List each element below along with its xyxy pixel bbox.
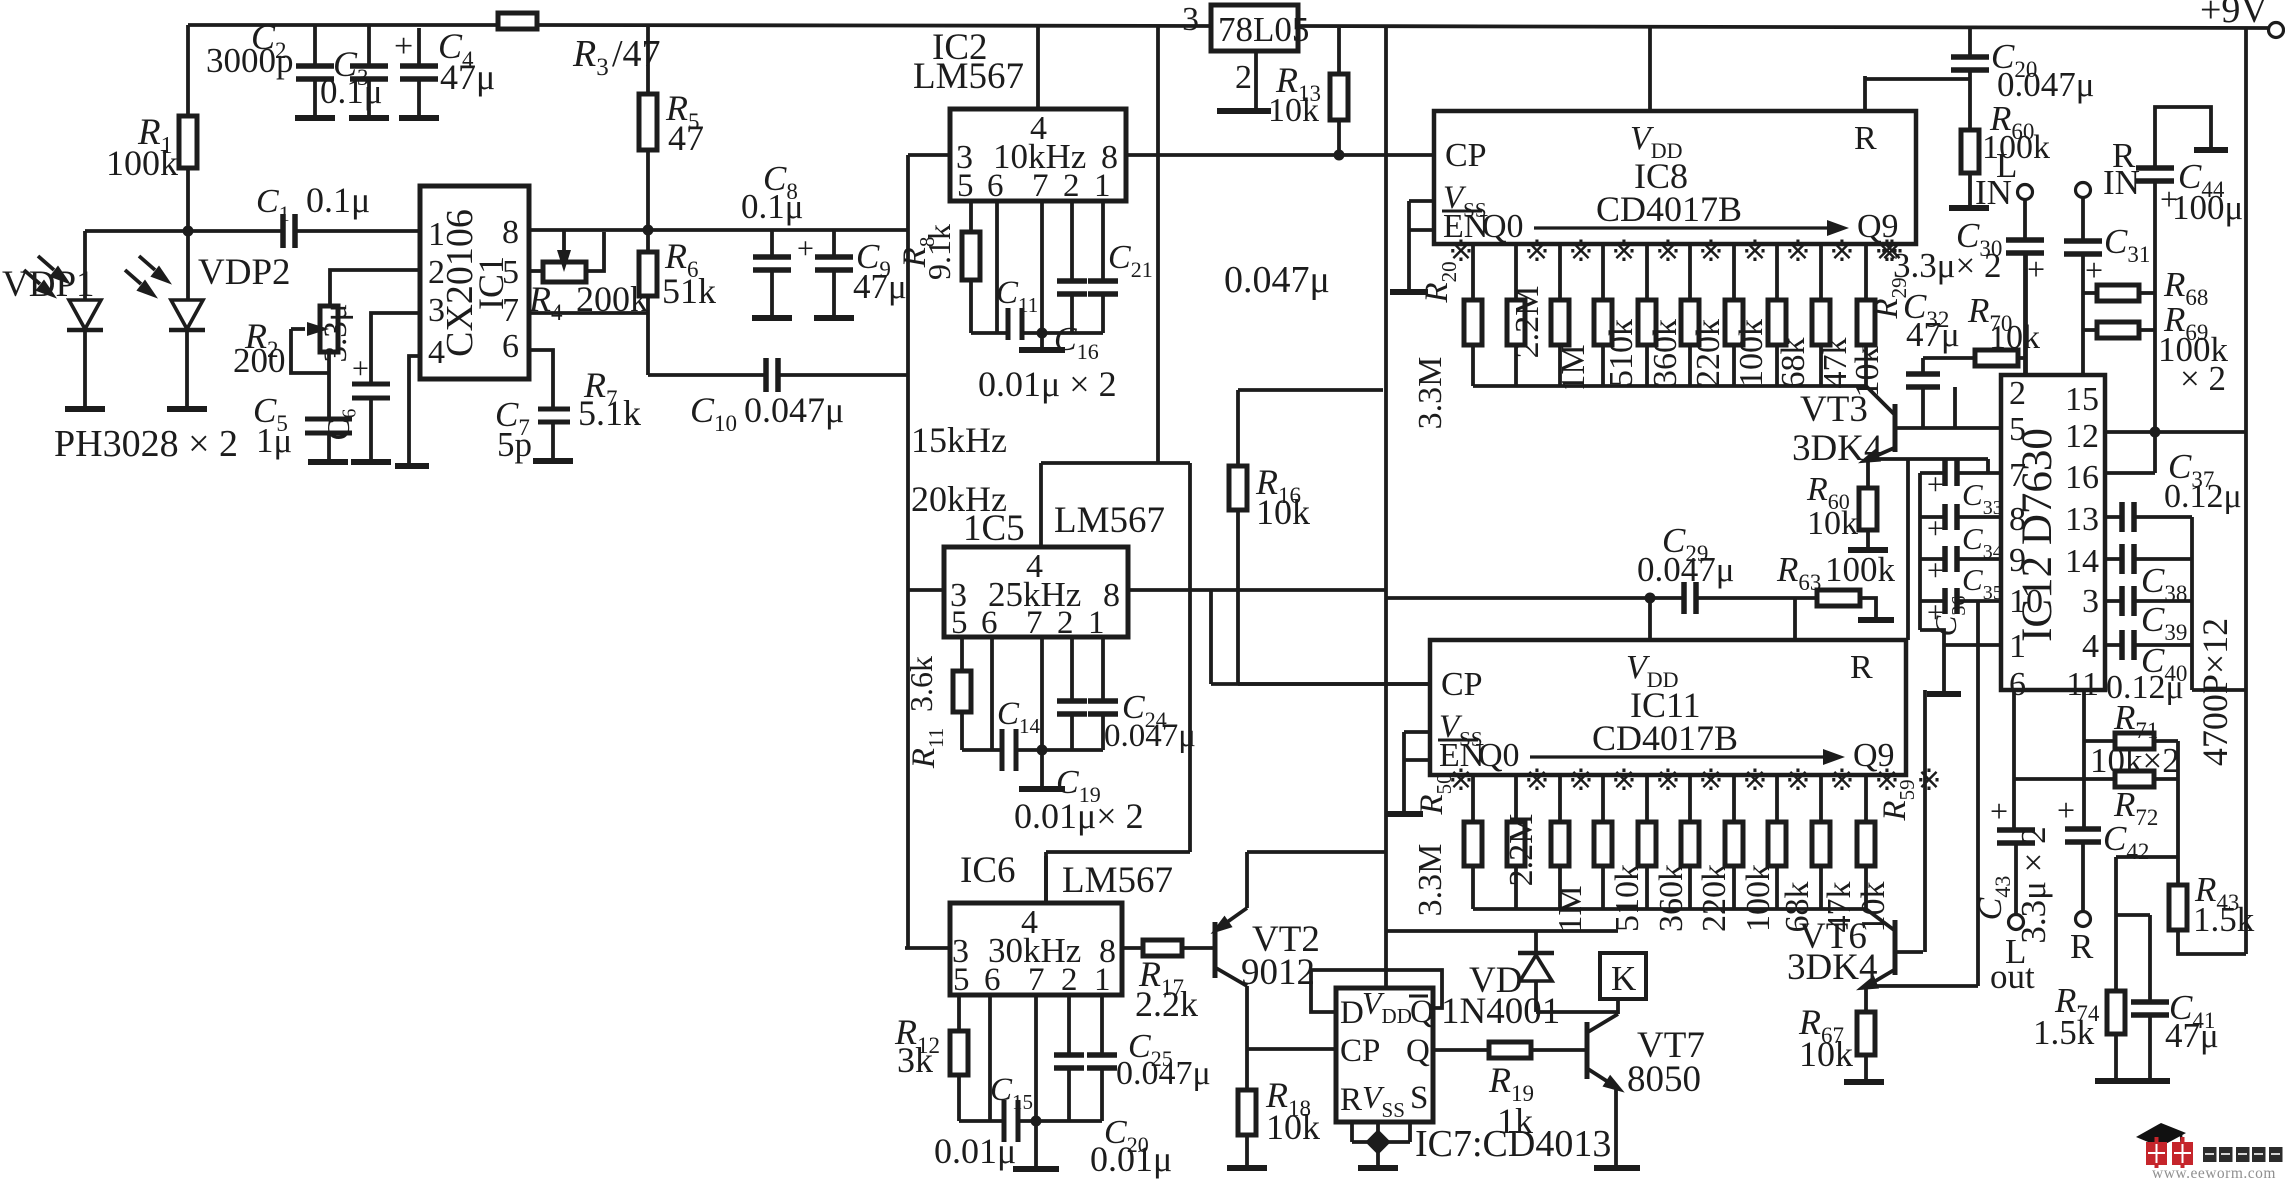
svg-text:※: ※ <box>1524 235 1549 268</box>
svg-text:360k: 360k <box>1653 864 1690 932</box>
svg-text:3.3M: 3.3M <box>1412 357 1449 430</box>
svg-text:51k: 51k <box>662 271 716 311</box>
svg-text:※: ※ <box>1611 764 1636 797</box>
ladder resistor 220k <box>1688 775 1692 822</box>
svg-text:10k×2: 10k×2 <box>2090 741 2180 780</box>
resistor R3 47 in rail <box>498 13 537 29</box>
svg-text:PH3028 × 2: PH3028 × 2 <box>54 423 238 465</box>
svg-text:10k: 10k <box>1266 1107 1320 1147</box>
svg-text:1N4001: 1N4001 <box>1441 991 1560 1032</box>
svg-text:+9V: +9V <box>2200 0 2268 31</box>
svg-text:9.1k: 9.1k <box>921 224 957 280</box>
transistor VT6 3DK4 <box>1866 909 1894 930</box>
resistor R18 10k <box>1238 1090 1256 1135</box>
wire IC6 pin4 riser <box>1044 856 1048 903</box>
transistor VT2 9012 <box>1213 922 1218 978</box>
svg-text:1.5k: 1.5k <box>2033 1013 2095 1052</box>
svg-text:※: ※ <box>1655 764 1680 797</box>
svg-text:10k: 10k <box>1256 492 1310 532</box>
svg-text:/47: /47 <box>612 33 661 75</box>
svg-text:78L05: 78L05 <box>1218 10 1309 49</box>
wire IC1 pin4 to ground <box>409 356 420 463</box>
svg-text:R: R <box>1340 1082 1362 1118</box>
IC7 bottom pins to ground <box>1350 1122 1354 1142</box>
ladder bottom bus <box>1473 384 1866 388</box>
resistor R16 10k <box>1236 390 1240 466</box>
svg-text:3DK4: 3DK4 <box>1787 947 1877 988</box>
capacitor C40 pin4 <box>2105 643 2122 647</box>
svg-text:47μ: 47μ <box>2165 1016 2219 1055</box>
capacitor C31 3.3u <box>2081 197 2085 241</box>
IC U12 D7630 box <box>2001 375 2105 690</box>
resistor R72 10k <box>2014 777 2115 781</box>
svg-text:1M: 1M <box>1555 344 1592 391</box>
wire IC1 pin6 to C7 <box>529 350 553 407</box>
svg-text:3k: 3k <box>897 1040 933 1080</box>
resistor R60 100k <box>1961 130 1979 173</box>
wire IC8 VDD to rail <box>1648 28 1652 111</box>
svg-text:15kHz: 15kHz <box>911 420 1007 460</box>
svg-text:※: ※ <box>1698 235 1723 268</box>
svg-text:2: 2 <box>2009 375 2026 412</box>
svg-text:360k: 360k <box>1647 319 1684 387</box>
svg-text:CP: CP <box>1445 137 1487 174</box>
capacitor C21 pair <box>1070 201 1074 281</box>
IC U6 LM567 IC6 box <box>950 903 1122 995</box>
transistor VT7 8050 <box>1585 1022 1590 1079</box>
svg-text:100k: 100k <box>1740 864 1777 932</box>
wire C30 node to IC12 pin2 <box>2024 253 2028 375</box>
svg-text:3.3μ × 2: 3.3μ × 2 <box>2014 826 2053 943</box>
IC2 pin7 column and C16 node <box>1040 201 1044 333</box>
svg-text:2: 2 <box>428 254 445 291</box>
wire vertical trunk to LM567 pin3s <box>906 155 910 948</box>
logo eeworm watermark <box>2136 1123 2283 1182</box>
svg-text:C₆: C₆ <box>320 408 356 441</box>
resistor R69 100k <box>2097 322 2139 338</box>
svg-text:4: 4 <box>2082 628 2099 665</box>
wire IC1 pin7 to R6 bottom <box>529 311 648 315</box>
svg-text:15: 15 <box>2065 381 2099 418</box>
svg-text:1μ: 1μ <box>256 421 292 460</box>
svg-text:+: + <box>1927 554 1944 587</box>
ladder resistor 47k <box>1819 244 1823 300</box>
svg-text:D: D <box>1340 995 1364 1031</box>
capacitor C42 3.3u <box>2082 741 2086 829</box>
IC5 pin7 column C19 node <box>1040 637 1044 750</box>
svg-text:6: 6 <box>984 962 1001 998</box>
IC 78L05 regulator box <box>1211 5 1298 51</box>
svg-text:3: 3 <box>428 292 445 329</box>
resistor R43 1.5k <box>2169 885 2187 930</box>
svg-text:1k: 1k <box>1497 1101 1533 1141</box>
wire R2 to C5 <box>327 352 331 419</box>
svg-text:1.5k: 1.5k <box>2193 900 2255 939</box>
svg-text:6: 6 <box>2009 666 2026 703</box>
svg-text:1: 1 <box>1094 168 1111 204</box>
svg-text:68k: 68k <box>1775 338 1812 389</box>
capacitor C36 <box>1942 588 1948 614</box>
wire C44 column joins pin12/pin16 <box>2153 432 2157 473</box>
svg-text:※: ※ <box>1785 764 1810 797</box>
capacitor C29 0.047u <box>1681 582 1687 614</box>
svg-text:+: + <box>1990 793 2008 829</box>
resistor R17 2.2k <box>1122 946 1143 950</box>
svg-text:+: + <box>394 28 413 65</box>
capacitor C6 3.3u <box>352 382 390 387</box>
svg-text:0.047μ: 0.047μ <box>744 390 844 430</box>
svg-text:2.2M: 2.2M <box>1509 286 1546 359</box>
ladder resistor 2.2M <box>1514 775 1518 822</box>
svg-text:47: 47 <box>668 118 704 158</box>
svg-text:8: 8 <box>502 214 519 251</box>
wire IC1 pin8 node line <box>529 228 908 232</box>
capacitor C4 47u decoupling <box>417 28 421 66</box>
wire IC5 pin6 down <box>990 637 994 750</box>
svg-text:R: R <box>2070 927 2094 966</box>
svg-text:VDP1: VDP1 <box>2 264 95 305</box>
svg-text:0.047μ: 0.047μ <box>1997 65 2095 104</box>
svg-text:※: ※ <box>1655 235 1680 268</box>
wire R74/C41 node <box>2116 855 2178 859</box>
IC U11 CD4017B IC11 box <box>1430 640 1906 775</box>
svg-text:+: + <box>1927 512 1944 545</box>
relay K box <box>1600 953 1646 999</box>
wire IC2 pin4 to rail <box>1036 25 1040 109</box>
svg-text:※: ※ <box>1568 235 1593 268</box>
wire IC8 R pin to C20/R60 <box>1863 76 1867 111</box>
IC11 VSS/EN stub to ground <box>1404 730 1430 734</box>
resistor R67 10k <box>1864 986 1868 1012</box>
wire IC5 pin8 out <box>1128 588 1386 592</box>
ladder resistor 10k <box>1864 775 1868 822</box>
ladder resistor 10k <box>1864 244 1868 300</box>
wire IC1 pin3 to C6 <box>371 313 420 382</box>
wire VT6 emitter right riser <box>1866 984 1978 988</box>
svg-text:IC6: IC6 <box>960 850 1016 891</box>
svg-text:2: 2 <box>1057 605 1074 641</box>
ladder resistor 68k <box>1775 775 1779 822</box>
node A junction R1/C1 <box>183 226 194 237</box>
IC8 VSS/EN stub to ground <box>1409 199 1434 203</box>
diode VD 1N4001 <box>1534 931 1538 953</box>
svg-text:※: ※ <box>1785 235 1810 268</box>
ladder resistor 2.2M <box>1514 244 1518 300</box>
wire IC2 pin8 branch down <box>1156 26 1160 463</box>
IC U2 LM567 IC2 box <box>950 109 1126 201</box>
capacitor C44 100u <box>2155 107 2211 168</box>
svg-text:47μ: 47μ <box>1906 315 1960 354</box>
wire IC12 pin6 to C43 <box>2012 690 2016 779</box>
svg-text:7: 7 <box>1026 605 1043 641</box>
wire IC11 R riser <box>1793 598 1797 640</box>
svg-text:3: 3 <box>2082 583 2099 620</box>
svg-text:CP: CP <box>1441 666 1483 703</box>
ladder resistor 1M <box>1558 244 1562 300</box>
svg-text:× 2: × 2 <box>2180 359 2226 398</box>
capacitor C2 3000p decoupling <box>313 25 317 66</box>
ladder bottom bus <box>1473 907 1866 911</box>
svg-text:0.047μ: 0.047μ <box>1104 718 1196 754</box>
photodiode VDP1 PH3028 <box>83 231 87 300</box>
svg-text:1: 1 <box>2009 628 2026 665</box>
svg-text:※: ※ <box>1742 235 1767 268</box>
svg-text:LM567: LM567 <box>1062 860 1173 901</box>
capacitor C25/C20 pair <box>1067 995 1071 1055</box>
ladder resistor 360k <box>1645 775 1649 822</box>
svg-text:1: 1 <box>1094 962 1111 998</box>
resistor R74 1.5k <box>2107 991 2125 1034</box>
svg-text:8: 8 <box>2009 501 2026 538</box>
ladder resistor 47k <box>1819 775 1823 822</box>
wire relay supply line <box>1386 929 1618 933</box>
svg-text:※: ※ <box>1698 764 1723 797</box>
svg-text:2.2k: 2.2k <box>1135 984 1198 1024</box>
svg-text:6: 6 <box>502 328 519 365</box>
svg-text:Q0: Q0 <box>1482 208 1524 245</box>
capacitor C15 0.01u <box>959 1119 1004 1123</box>
78L05 pin2 to ground <box>1254 51 1258 109</box>
svg-text:K: K <box>1611 959 1636 998</box>
potentiometer R4 200k <box>543 262 586 282</box>
svg-text:3.3μ× 2: 3.3μ× 2 <box>1893 246 2002 285</box>
capacitor C38 pin14 <box>2105 557 2122 561</box>
resistor R68 100k <box>2097 285 2139 301</box>
resistor R6 51k <box>639 252 657 296</box>
svg-text:7: 7 <box>1032 168 1049 204</box>
capacitor C10 0.047u <box>763 358 769 392</box>
IC U1 CX20106 IC1 box <box>420 186 529 379</box>
svg-text:8: 8 <box>1103 577 1120 614</box>
wire VT2 collector to IC7 CP <box>1247 1047 1336 1051</box>
svg-text:※: ※ <box>1611 235 1636 268</box>
svg-text:510k: 510k <box>1603 319 1640 387</box>
svg-text:100k: 100k <box>106 143 178 183</box>
svg-text:2: 2 <box>1061 962 1078 998</box>
wire IC2 pin6 down <box>995 201 999 333</box>
svg-text:0.047μ: 0.047μ <box>1116 1055 1211 1092</box>
svg-text:+: + <box>2027 251 2045 287</box>
svg-text:Q: Q <box>1406 1033 1430 1069</box>
capacitor C34 <box>1942 504 1948 530</box>
ladder resistor 510k <box>1601 775 1605 822</box>
svg-text:LM567: LM567 <box>913 56 1024 97</box>
svg-text:R: R <box>1854 120 1877 157</box>
capacitor C14 0.01u <box>962 748 1002 752</box>
svg-text:R: R <box>1850 649 1873 686</box>
resistor R13 10k <box>1337 28 1341 74</box>
resistor R70 10k <box>1923 356 1975 360</box>
potentiometer R2 200 <box>320 306 338 352</box>
svg-text:510k: 510k <box>1609 864 1646 932</box>
svg-text:www.eeworm.com: www.eeworm.com <box>2152 1165 2276 1179</box>
svg-text:1: 1 <box>1088 605 1105 641</box>
resistor R11 3.6k <box>960 637 964 671</box>
terminal L out <box>2009 915 2024 930</box>
svg-text:16: 16 <box>2065 459 2099 496</box>
capacitor C39 pin3 <box>2105 599 2122 603</box>
svg-text:0.01μ: 0.01μ <box>934 1131 1016 1171</box>
capacitor C8 0.1u <box>770 230 774 257</box>
svg-text:200: 200 <box>233 341 286 380</box>
capacitor C20 0.047u top <box>1968 28 1972 57</box>
svg-text:14: 14 <box>2065 543 2099 580</box>
svg-text:220k: 220k <box>1696 864 1733 932</box>
resistor R19 1k <box>1433 1048 1489 1052</box>
wire IC7 D to Qbar loop <box>1311 970 1442 1012</box>
svg-text:out: out <box>1990 957 2035 996</box>
IC U7 CD4013 IC7 box <box>1336 988 1433 1122</box>
capacitor C35 <box>1942 546 1948 572</box>
wire IC5 pin3 to trunk <box>908 588 944 592</box>
svg-text:※: ※ <box>1742 764 1767 797</box>
resistor R60b 10k emitter <box>1866 459 1870 488</box>
svg-text:+: + <box>797 232 814 265</box>
svg-text:※: ※ <box>1829 235 1854 268</box>
svg-text:0.01μ× 2: 0.01μ× 2 <box>1014 796 1144 836</box>
svg-text:0.01μ × 2: 0.01μ × 2 <box>978 364 1117 404</box>
IC U5 LM567 1C5 box <box>944 547 1128 637</box>
wire IC1 pin2 to R2 <box>330 270 420 306</box>
wire C29 line from trunk <box>1386 596 1684 600</box>
IC U8 CD4017B IC8 box <box>1434 111 1916 244</box>
ladder resistor 68k <box>1775 244 1779 300</box>
capacitor C7 5p <box>538 407 570 412</box>
svg-text:3.3μ: 3.3μ <box>318 304 354 363</box>
+9V terminal <box>2269 23 2284 38</box>
wire pin7 node to C10 <box>648 373 766 377</box>
svg-text:100k: 100k <box>1733 319 1770 387</box>
svg-text:CD4017B: CD4017B <box>1596 189 1742 229</box>
svg-text:+: + <box>2057 792 2075 828</box>
svg-text:6: 6 <box>987 168 1004 204</box>
svg-text:10k: 10k <box>1807 505 1858 542</box>
wire cap bus right <box>2190 517 2194 690</box>
svg-text:0.01μ: 0.01μ <box>1090 1139 1172 1179</box>
svg-text:7: 7 <box>502 292 519 329</box>
wire +9V top rail <box>188 23 498 27</box>
ladder resistor 100k <box>1732 775 1736 822</box>
svg-text:2: 2 <box>1235 59 1252 96</box>
ladder resistor 3.3M <box>1471 775 1475 822</box>
svg-text:7: 7 <box>2009 457 2026 494</box>
wire IC12 pin1 to ground bus <box>1944 643 2001 647</box>
wire input node to VDP1 <box>85 229 281 233</box>
ladder resistor 510k <box>1601 244 1605 300</box>
svg-text:S: S <box>1410 1080 1428 1116</box>
wire IC2 pin8 to IC8 CP <box>1126 153 1434 157</box>
ladder resistor 1M <box>1558 775 1562 822</box>
wire C33-C36 bus to ground <box>1918 473 1922 630</box>
svg-text:※: ※ <box>1524 764 1549 797</box>
svg-text:8050: 8050 <box>1627 1059 1701 1100</box>
svg-text:VT3: VT3 <box>1800 389 1868 430</box>
wire IC6 pin6 down <box>988 995 992 1121</box>
svg-text:6: 6 <box>981 605 998 641</box>
wire VT3 emitter to C33 node <box>1868 457 1988 461</box>
svg-text:13: 13 <box>2065 501 2099 538</box>
svg-text:9012: 9012 <box>1241 952 1315 993</box>
svg-text:5: 5 <box>957 168 974 204</box>
resistor R71 10k <box>2082 690 2086 741</box>
wire IC12 pin12 to trunk <box>2105 430 2246 434</box>
svg-text:2.2M: 2.2M <box>1503 814 1540 887</box>
wire IC2 pin3 to trunk <box>908 153 950 157</box>
svg-text:5.1k: 5.1k <box>578 393 641 433</box>
svg-text:5: 5 <box>502 254 519 291</box>
capacitor C33 <box>1942 460 1948 486</box>
capacitor C11 0.01u <box>971 331 1008 335</box>
wire main trunk 9V to IC7 <box>1384 25 1388 988</box>
svg-text:100k: 100k <box>1825 550 1896 589</box>
capacitor C5 1u <box>305 417 352 422</box>
svg-text:0.1μ: 0.1μ <box>320 72 383 111</box>
svg-text:10: 10 <box>2009 583 2043 620</box>
svg-text:5: 5 <box>953 962 970 998</box>
svg-text:IN: IN <box>2103 163 2140 202</box>
svg-text:IN: IN <box>1975 173 2012 212</box>
transistor VT3 3DK4 <box>1866 386 1894 414</box>
svg-text:※: ※ <box>1829 764 1854 797</box>
wire right-edge trunk <box>2244 28 2248 954</box>
svg-text:3.6k: 3.6k <box>903 656 939 712</box>
ladder resistor 100k <box>1732 244 1736 300</box>
resistor R5 47 <box>646 25 650 94</box>
capacitor C1 0.1u <box>280 214 286 248</box>
svg-text:0.12μ: 0.12μ <box>2164 478 2242 515</box>
photodiode VDP2 PH3028 <box>186 231 190 300</box>
svg-text:CP: CP <box>1340 1033 1380 1069</box>
ladder resistor 3.3M <box>1471 244 1475 300</box>
resistor R8 9.1k <box>969 201 973 232</box>
resistor R12 3k <box>957 995 961 1031</box>
capacitor C43 3.3u <box>2012 779 2016 830</box>
svg-text:5: 5 <box>2009 411 2026 448</box>
svg-text:0.047μ: 0.047μ <box>1637 550 1735 589</box>
capacitor C37 0.12u pin13 <box>2105 515 2122 519</box>
svg-text:※: ※ <box>1916 764 1941 797</box>
svg-text:0.047μ: 0.047μ <box>1224 259 1330 301</box>
capacitor C24 pair 0.047u <box>1070 637 1074 701</box>
svg-text:9: 9 <box>2009 542 2026 579</box>
svg-text:7: 7 <box>1028 962 1045 998</box>
svg-text:+: + <box>352 352 369 385</box>
terminal R out <box>2076 912 2091 927</box>
svg-text:0.1μ: 0.1μ <box>741 187 804 226</box>
svg-text:47μ: 47μ <box>440 57 495 97</box>
svg-text:※: ※ <box>1568 764 1593 797</box>
svg-text:5: 5 <box>951 605 968 641</box>
svg-text:5p: 5p <box>497 425 532 464</box>
capacitor C9 47u <box>832 230 836 257</box>
svg-text:4700P×12: 4700P×12 <box>2195 618 2235 766</box>
svg-text:1C5: 1C5 <box>963 508 1025 549</box>
svg-text:10k: 10k <box>1989 319 2040 356</box>
wire IC5 pin8 drop to CP line <box>1209 590 1213 684</box>
resistor R63 100k <box>1817 590 1860 606</box>
svg-text:+: + <box>1927 468 1944 501</box>
svg-text:10k: 10k <box>1268 92 1319 129</box>
wire supply to IC5/IC6 pin4 <box>1041 461 1190 465</box>
svg-text:LM567: LM567 <box>1054 500 1165 541</box>
svg-text:4: 4 <box>428 334 445 371</box>
capacitor C3 0.1u decoupling <box>367 25 371 66</box>
junction R5/R6 node <box>643 225 654 236</box>
svg-text:220k: 220k <box>1690 319 1727 387</box>
svg-text:1M: 1M <box>1552 885 1589 932</box>
svg-text:3000p: 3000p <box>206 41 294 80</box>
svg-text:3.3M: 3.3M <box>1412 844 1449 917</box>
